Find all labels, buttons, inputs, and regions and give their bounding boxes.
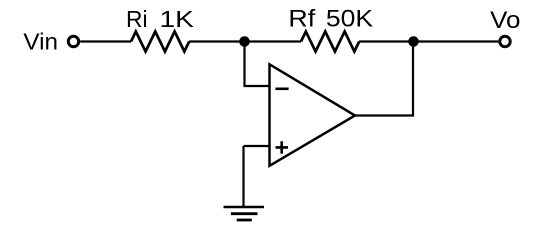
wire feedback node A down xyxy=(245,42,271,87)
node B junction xyxy=(408,36,419,47)
svg-text:Rf: Rf xyxy=(288,6,315,33)
wire node B to Vo xyxy=(413,40,498,42)
wire node A to Rf xyxy=(245,40,302,42)
wire output xyxy=(354,42,413,116)
ground xyxy=(224,207,265,220)
pin minus xyxy=(275,88,288,91)
node A junction xyxy=(239,36,250,47)
pin plus xyxy=(276,141,289,153)
svg-text:Vin: Vin xyxy=(23,29,58,55)
wire Vin to Ri xyxy=(80,40,131,42)
wire Rf to node B xyxy=(359,40,413,42)
svg-text:Vo: Vo xyxy=(490,7,520,34)
resistor Ri xyxy=(131,32,189,52)
op-amp U1 xyxy=(270,64,356,166)
svg-text:Ri: Ri xyxy=(126,6,148,32)
resistor Rf xyxy=(301,32,359,52)
wire Ri to node A xyxy=(189,40,244,42)
terminal Vin xyxy=(68,36,78,46)
wire plus input to ground xyxy=(242,146,244,207)
wire plus input xyxy=(244,145,271,147)
svg-text:1K: 1K xyxy=(160,6,195,32)
svg-text:50K: 50K xyxy=(326,6,373,33)
terminal Vo xyxy=(500,36,510,46)
